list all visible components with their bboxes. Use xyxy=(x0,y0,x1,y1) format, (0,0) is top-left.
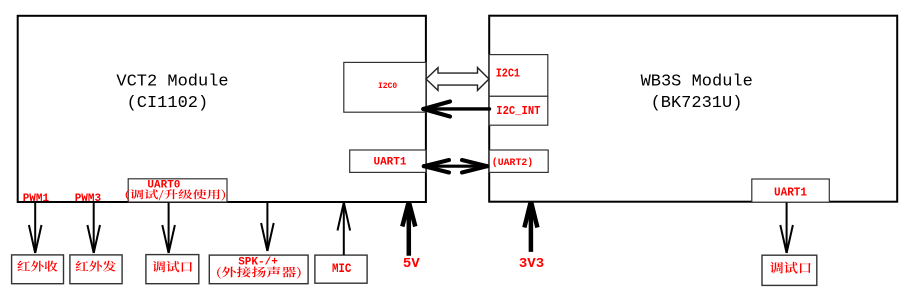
wire arrow I2C_INT to I2C0 (solid left) xyxy=(423,102,489,117)
wire arrow UART0 down xyxy=(162,203,175,254)
box MIC xyxy=(315,255,367,283)
svg-text:VCT2 Module: VCT2 Module xyxy=(116,73,228,92)
box speaker SPK xyxy=(209,255,308,284)
label 调试口 left xyxy=(153,261,193,272)
svg-text:5V: 5V xyxy=(403,256,420,272)
svg-text:PWM3: PWM3 xyxy=(75,193,102,205)
bus arrow I2C0-I2C1 double open xyxy=(426,68,489,91)
module WB3S (BK7231U) outline xyxy=(489,16,897,202)
svg-text:I2C_INT: I2C_INT xyxy=(496,105,540,118)
svg-text:UART1: UART1 xyxy=(774,187,807,200)
svg-text:UART0: UART0 xyxy=(147,180,180,192)
port box I2C0 xyxy=(344,62,426,112)
svg-text:I2C1: I2C1 xyxy=(496,68,520,81)
wire arrow PWM3 down xyxy=(87,203,100,254)
power arrow 3V3 up (thick) xyxy=(524,202,537,252)
label 红外收 xyxy=(17,261,57,272)
port box UART1 left xyxy=(350,150,426,172)
wire arrow PWM1 down xyxy=(29,203,42,254)
label 调试口 right xyxy=(770,262,811,274)
pin label UART0 chinese (调试/升级使用) xyxy=(126,189,226,200)
svg-text:3V3: 3V3 xyxy=(519,256,544,272)
port box (UART2) xyxy=(489,150,548,172)
svg-text:WB3S Module: WB3S Module xyxy=(641,73,753,92)
port box UART1 right xyxy=(752,179,830,202)
port box I2C1 xyxy=(489,55,548,97)
svg-text:MIC: MIC xyxy=(332,262,352,276)
label (外接扬声器) xyxy=(217,267,301,279)
module VCT2 (CI1102) outline xyxy=(18,16,426,202)
wire arrow SPK down xyxy=(261,203,274,252)
wire arrow MIC up xyxy=(338,203,351,256)
svg-text:(BK7231U): (BK7231U) xyxy=(651,94,743,113)
power arrow 5V up (thick) xyxy=(402,203,415,256)
box debug port left 调试口 xyxy=(146,255,199,284)
box debug port right 调试口 xyxy=(762,255,817,285)
svg-text:UART1: UART1 xyxy=(373,156,406,168)
svg-text:I2C0: I2C0 xyxy=(378,82,397,91)
wire arrow UART1-UART2 double solid xyxy=(424,160,488,173)
label 红外发 xyxy=(76,261,116,272)
svg-text:SPK-/+: SPK-/+ xyxy=(238,256,278,268)
svg-text:(UART2): (UART2) xyxy=(492,157,533,169)
box IR transmitter 红外发 xyxy=(70,255,122,284)
svg-text:(CI1102): (CI1102) xyxy=(127,94,209,113)
wire arrow UART1 right down xyxy=(780,203,793,254)
box IR receiver 红外收 xyxy=(12,255,64,284)
port box I2C_INT xyxy=(489,96,548,125)
port box UART0 xyxy=(128,179,227,202)
